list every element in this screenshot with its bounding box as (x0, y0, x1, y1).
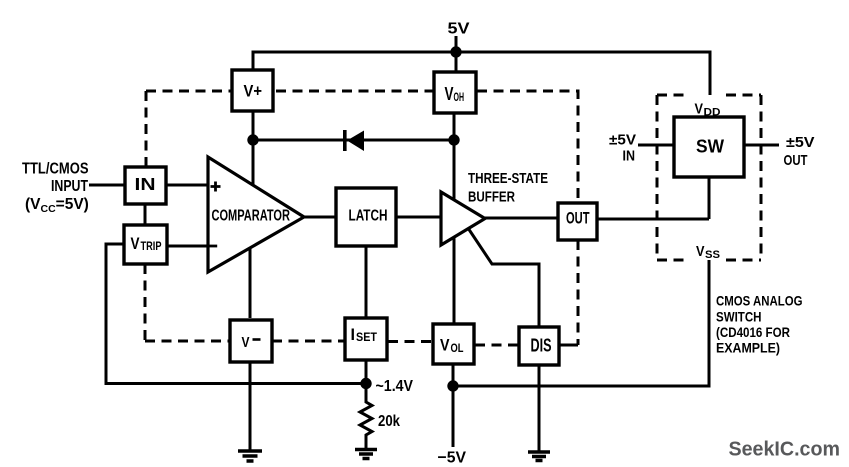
svg-text:±5V: ±5V (609, 132, 636, 149)
svg-text:±5V: ±5V (786, 134, 815, 151)
svg-text:(CD4016 FOR: (CD4016 FOR (716, 324, 790, 340)
svg-text:INPUT: INPUT (51, 178, 88, 195)
svg-text:SWITCH: SWITCH (716, 309, 762, 325)
svg-text:−5V: −5V (438, 450, 467, 467)
svg-text:V+: V+ (244, 83, 263, 101)
svg-text:OH: OH (454, 90, 465, 104)
svg-text:(VCC=5V): (VCC=5V) (25, 196, 89, 215)
svg-text:SS: SS (705, 249, 720, 261)
svg-text:V: V (440, 336, 450, 355)
svg-text:5V: 5V (448, 21, 470, 38)
svg-text:V: V (695, 101, 704, 118)
svg-text:DD: DD (704, 107, 721, 119)
svg-text:V: V (696, 243, 705, 260)
svg-text:DIS: DIS (531, 336, 552, 356)
svg-text:CMOS ANALOG: CMOS ANALOG (716, 293, 803, 309)
svg-text:~1.4V: ~1.4V (376, 378, 414, 395)
svg-text:SET: SET (356, 332, 377, 344)
svg-text:IN: IN (623, 148, 636, 165)
svg-text:COMPARATOR: COMPARATOR (212, 208, 291, 225)
svg-text:LATCH: LATCH (349, 208, 388, 225)
svg-text:TRIP: TRIP (141, 241, 162, 253)
svg-text:EXAMPLE): EXAMPLE) (716, 340, 780, 356)
svg-text:THREE-STATE: THREE-STATE (468, 171, 548, 187)
svg-text:OUT: OUT (784, 152, 808, 169)
svg-text:IN: IN (135, 174, 156, 194)
svg-text:20k: 20k (378, 413, 400, 430)
svg-text:SeekIC.com: SeekIC.com (729, 439, 841, 461)
svg-text:BUFFER: BUFFER (468, 190, 515, 206)
svg-text:V: V (445, 84, 454, 104)
svg-text:OL: OL (451, 343, 464, 355)
svg-text:TTL/CMOS: TTL/CMOS (22, 161, 89, 178)
svg-text:V: V (242, 334, 250, 351)
svg-text:OUT: OUT (566, 210, 590, 228)
svg-text:SW: SW (696, 136, 724, 157)
svg-text:I: I (351, 325, 356, 344)
svg-text:V: V (131, 234, 141, 253)
